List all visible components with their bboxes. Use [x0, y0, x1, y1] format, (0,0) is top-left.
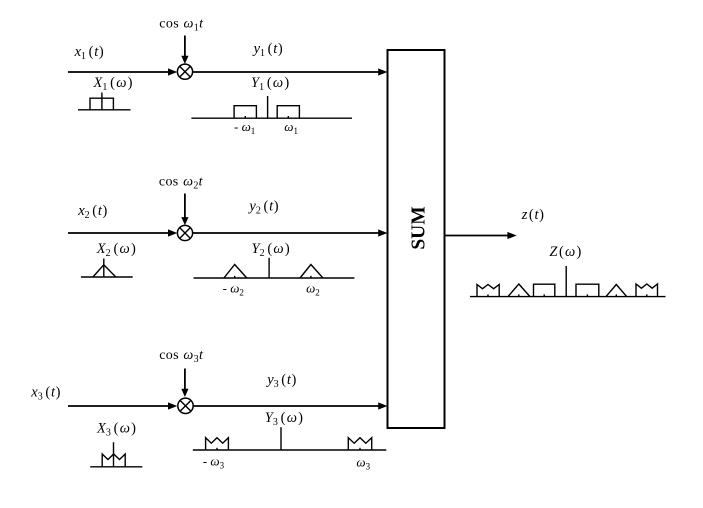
- svg-text:y2(t): y2(t): [247, 199, 278, 217]
- svg-text:ω2: ω2: [306, 281, 320, 298]
- svg-text:z(t): z(t): [521, 207, 544, 223]
- svg-text:Y3(ω): Y3(ω): [265, 410, 303, 428]
- svg-text:cos ω3t: cos ω3t: [159, 348, 204, 365]
- svg-text:ω1: ω1: [284, 119, 298, 136]
- svg-text:x1(t): x1(t): [74, 44, 104, 62]
- svg-text:- ω3: - ω3: [203, 454, 225, 471]
- svg-text:ω3: ω3: [356, 455, 370, 472]
- svg-text:X2(ω): X2(ω): [96, 241, 136, 259]
- svg-text:- ω2: - ω2: [223, 281, 244, 298]
- svg-text:y3(t): y3(t): [265, 372, 296, 390]
- svg-text:y1(t): y1(t): [252, 41, 283, 59]
- svg-text:- ω1: - ω1: [234, 119, 255, 136]
- svg-text:x2(t): x2(t): [77, 203, 107, 221]
- svg-text:cos ω1t: cos ω1t: [159, 17, 204, 34]
- svg-text:X1(ω): X1(ω): [93, 75, 133, 93]
- svg-text:Y1(ω): Y1(ω): [251, 75, 289, 93]
- svg-text:X3(ω): X3(ω): [96, 420, 136, 438]
- svg-text:Z(ω): Z(ω): [549, 244, 581, 260]
- svg-text:x3(t): x3(t): [30, 385, 60, 403]
- svg-text:cos ω2t: cos ω2t: [159, 174, 204, 191]
- svg-text:Y2(ω): Y2(ω): [252, 241, 290, 259]
- svg-text:SUM: SUM: [409, 206, 430, 249]
